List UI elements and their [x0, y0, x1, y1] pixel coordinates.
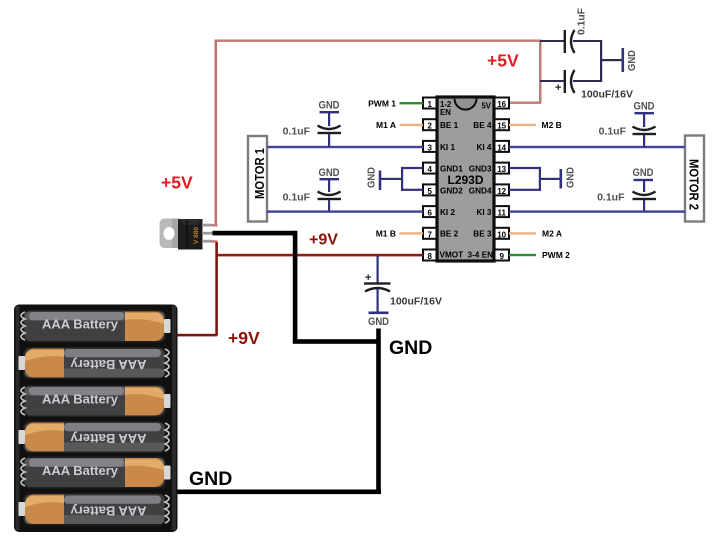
- pin 6: [423, 206, 437, 218]
- svg-text:12: 12: [497, 187, 506, 196]
- wire pin6 to motor1: [267, 210, 423, 212]
- node M1 A: [376, 120, 423, 130]
- svg-text:GND: GND: [368, 316, 389, 328]
- svg-text:AAA Battery: AAA Battery: [42, 318, 118, 332]
- wire pins 4-5 tie: [381, 167, 423, 191]
- svg-text:+5V: +5V: [161, 173, 193, 193]
- svg-text:14: 14: [497, 143, 506, 152]
- svg-text:0.1uF: 0.1uF: [597, 192, 625, 204]
- node M2 B: [509, 120, 562, 130]
- node PWM 2: [509, 250, 570, 260]
- capacitor C4 0.1uF (left, pin6 row): [283, 167, 341, 211]
- svg-text:GND: GND: [189, 468, 232, 490]
- svg-text:13: 13: [497, 165, 506, 174]
- capacitor C1 0.1uF (top right): [540, 7, 601, 53]
- svg-text:GND: GND: [389, 337, 432, 359]
- node PWM 1: [368, 99, 423, 109]
- motor M1 box: [248, 136, 267, 222]
- capacitor C6 0.1uF (right, pin11 row): [597, 167, 656, 211]
- pin 1: [423, 98, 437, 110]
- pin 12: [495, 184, 510, 196]
- battery pack case: [14, 305, 178, 533]
- svg-text:MOTOR 1: MOTOR 1: [253, 148, 267, 199]
- svg-text:+: +: [555, 82, 561, 94]
- pin 8: [423, 250, 437, 262]
- battery B6 (AAA flipped): [19, 493, 167, 526]
- svg-text:15: 15: [497, 122, 506, 131]
- ground (pins 13-12): [560, 167, 577, 189]
- svg-text:GND3: GND3: [469, 165, 492, 174]
- pin 4: [423, 163, 437, 175]
- node M2 A: [509, 229, 562, 239]
- svg-text:GND: GND: [319, 167, 340, 179]
- wire pin14 to motor2: [509, 146, 685, 148]
- svg-text:M1 B: M1 B: [376, 229, 396, 239]
- svg-text:5V: 5V: [481, 102, 491, 111]
- wire pin16 to +5V: [509, 102, 541, 104]
- svg-text:+9V: +9V: [309, 232, 338, 249]
- svg-text:MOTOR 2: MOTOR 2: [687, 159, 701, 210]
- svg-text:AAA Battery: AAA Battery: [70, 431, 146, 445]
- svg-text:VMOT: VMOT: [440, 251, 464, 260]
- svg-text:BE 3: BE 3: [473, 230, 492, 239]
- battery B2 (AAA flipped): [19, 347, 167, 379]
- svg-text:GND: GND: [626, 50, 638, 71]
- svg-text:5: 5: [427, 187, 432, 196]
- svg-text:V 880: V 880: [193, 227, 200, 244]
- svg-text:EN: EN: [440, 108, 451, 117]
- svg-text:BE 4: BE 4: [473, 121, 492, 130]
- pin 13: [495, 163, 510, 175]
- battery B3 (AAA): [23, 385, 171, 417]
- svg-text:M2 B: M2 B: [542, 120, 562, 130]
- svg-text:KI 3: KI 3: [476, 208, 491, 217]
- svg-text:GND: GND: [634, 101, 655, 113]
- pin 10: [495, 228, 510, 240]
- pin 7: [423, 228, 437, 240]
- svg-text:PWM 1: PWM 1: [368, 99, 396, 109]
- svg-text:4: 4: [427, 165, 432, 174]
- svg-text:2: 2: [427, 122, 432, 131]
- svg-text:GND: GND: [366, 167, 378, 188]
- svg-text:PWM 2: PWM 2: [542, 250, 570, 260]
- svg-text:GND1: GND1: [440, 165, 463, 174]
- node M1 B: [376, 229, 423, 239]
- battery B1 (AAA): [23, 310, 171, 343]
- transistor Q1 voltage regulator 7805: [160, 219, 218, 250]
- ground (below C7): [368, 312, 389, 329]
- pin 2: [423, 119, 437, 131]
- svg-text:GND: GND: [319, 100, 340, 112]
- svg-text:9: 9: [499, 252, 504, 261]
- svg-text:3-4 EN: 3-4 EN: [468, 251, 494, 260]
- capacitor C2 100uF/16V (top right): [540, 70, 633, 101]
- svg-text:100uF/16V: 100uF/16V: [390, 296, 442, 308]
- svg-text:10: 10: [497, 230, 506, 239]
- svg-text:AAA Battery: AAA Battery: [70, 357, 146, 371]
- svg-text:11: 11: [497, 209, 506, 218]
- svg-text:1: 1: [427, 100, 432, 109]
- svg-text:AAA Battery: AAA Battery: [70, 504, 146, 518]
- wire +9V to pin8: [216, 254, 423, 257]
- svg-text:KI 4: KI 4: [476, 143, 491, 152]
- svg-text:0.1uF: 0.1uF: [283, 192, 311, 204]
- svg-text:GND4: GND4: [469, 187, 492, 196]
- wire pin3 to motor1: [267, 146, 423, 148]
- svg-text:BE 2: BE 2: [440, 230, 459, 239]
- svg-text:8: 8: [427, 252, 432, 261]
- svg-text:BE 1: BE 1: [440, 121, 459, 130]
- capacitor C3 0.1uF (left, pin3 row): [283, 100, 341, 148]
- capacitor C7 100uF/16V (below pin8): [364, 256, 442, 312]
- springs: [21, 312, 169, 523]
- svg-text:+9V: +9V: [228, 328, 260, 348]
- wire pin11 to motor2: [509, 210, 685, 212]
- svg-text:0.1uF: 0.1uF: [599, 126, 627, 138]
- pin 15: [495, 119, 510, 131]
- wire regulator GND (black): [177, 231, 381, 494]
- motor M2 box: [685, 136, 704, 222]
- svg-text:KI 2: KI 2: [440, 208, 455, 217]
- svg-text:AAA Battery: AAA Battery: [42, 393, 118, 407]
- svg-text:GND: GND: [565, 167, 577, 188]
- svg-text:L293D: L293D: [447, 173, 483, 187]
- pin 3: [423, 141, 437, 153]
- wire cap join vertical: [600, 40, 602, 82]
- ground (top right): [601, 48, 638, 72]
- pin 14: [495, 141, 510, 153]
- pin 11: [495, 206, 510, 218]
- svg-text:7: 7: [427, 230, 432, 239]
- svg-text:M1 A: M1 A: [376, 120, 396, 130]
- wire battery +9V: [177, 242, 218, 336]
- svg-text:GND: GND: [633, 167, 654, 179]
- wire +5V top rail: [215, 40, 542, 226]
- svg-text:100uF/16V: 100uF/16V: [581, 89, 633, 101]
- capacitor C5 0.1uF (right, pin14 row): [599, 101, 656, 148]
- op-amp U1 L293D body: [437, 97, 494, 261]
- svg-text:3: 3: [427, 143, 432, 152]
- svg-text:16: 16: [497, 100, 506, 109]
- ground (pins 4-5): [366, 167, 382, 190]
- pin 16: [495, 98, 510, 110]
- battery B4 (AAA flipped): [19, 421, 167, 453]
- svg-text:AAA Battery: AAA Battery: [42, 464, 118, 478]
- svg-text:6: 6: [427, 209, 432, 218]
- pin 5: [423, 184, 437, 196]
- svg-text:0.1uF: 0.1uF: [283, 126, 311, 138]
- battery B5 (AAA): [23, 457, 171, 489]
- svg-text:+5V: +5V: [487, 51, 519, 71]
- wire pins 13-12 tie: [509, 167, 560, 191]
- svg-text:+: +: [365, 272, 371, 284]
- svg-text:GND2: GND2: [440, 187, 463, 196]
- pin 9: [495, 250, 510, 262]
- svg-text:M2 A: M2 A: [542, 229, 562, 239]
- svg-text:0.1uF: 0.1uF: [576, 7, 588, 35]
- svg-text:KI 1: KI 1: [440, 143, 455, 152]
